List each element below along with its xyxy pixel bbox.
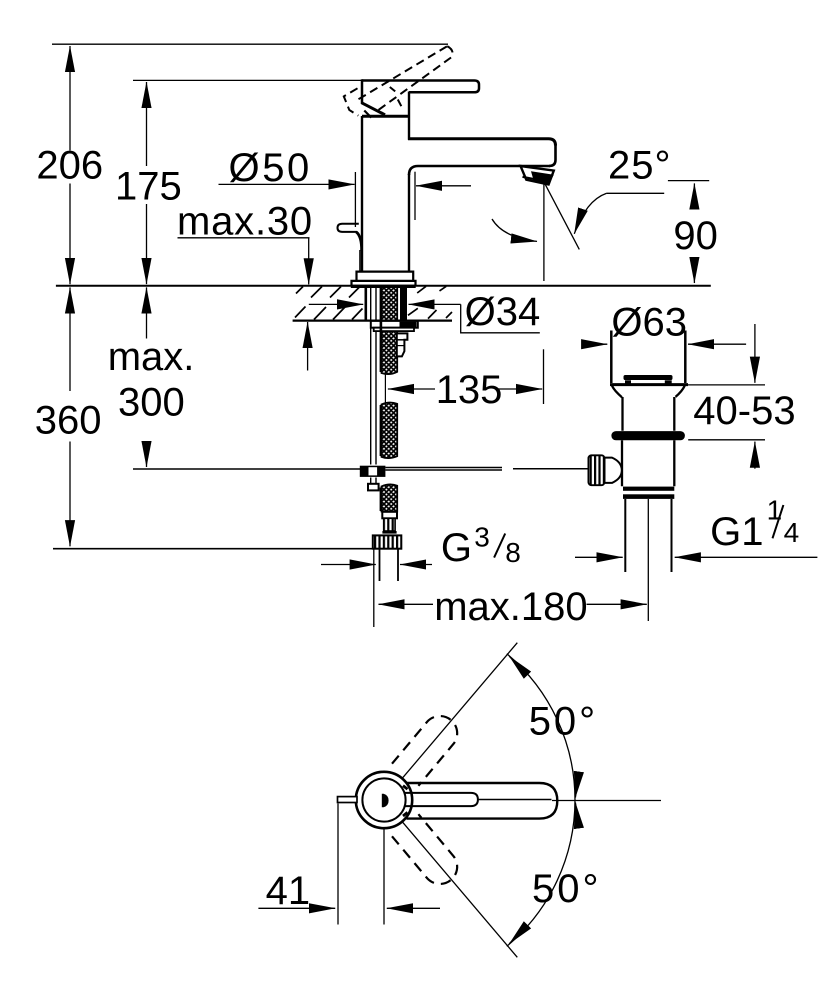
extension line top (lever raised tip level): [52, 43, 448, 45]
shank fitting steps: [397, 333, 408, 356]
countertop underside line: [293, 320, 452, 322]
spout top edge: [408, 139, 556, 146]
dimension max.300 line+arrows: [146, 287, 148, 338]
mounting nut tier1: [371, 321, 418, 328]
svg-text:135: 135: [436, 368, 503, 412]
svg-text:1: 1: [767, 495, 783, 526]
40-53 extension lines: [688, 384, 765, 386]
50° ray lower: [402, 821, 517, 957]
raised lever (dashed): [359, 46, 448, 99]
bottom reference line 360: [53, 548, 374, 550]
drain plug cap: [624, 375, 673, 380]
swing arc: [507, 654, 575, 947]
dimension 40-53 arrows: [754, 324, 756, 383]
svg-text:25°: 25°: [608, 144, 672, 188]
extension line at lever top level: [133, 79, 362, 81]
svg-text:Ø63: Ø63: [611, 301, 687, 345]
drain collar: [623, 487, 674, 491]
faucet body right edge lower: [408, 174, 410, 272]
svg-text:G: G: [441, 526, 472, 570]
svg-text:8: 8: [505, 537, 521, 568]
svg-text:360: 360: [35, 399, 102, 443]
hose end pipe: [380, 549, 399, 581]
dimension 90 arrows: [693, 183, 695, 209]
supply hose lower segment: [382, 484, 398, 511]
Ø34 leader: [461, 304, 540, 332]
svg-text:50°: 50°: [532, 867, 602, 911]
aerator outlet: [521, 166, 554, 185]
supply hose middle segment: [382, 403, 398, 459]
svg-text:G1: G1: [710, 510, 763, 554]
spray vertical reference: [543, 183, 545, 281]
lever inner slot: [404, 793, 478, 806]
handle head inner circle: [362, 778, 405, 821]
G3/8 nut: [373, 535, 402, 548]
pop-up rod knob: [338, 224, 359, 232]
pull rod foot: [368, 484, 379, 491]
faucet body right edge upper: [408, 92, 410, 140]
countertop reference line: [56, 285, 711, 287]
hose axis in break: [384, 372, 386, 403]
spout right end: [549, 144, 556, 166]
faucet body left edge: [361, 116, 363, 272]
dimension Ø50 arrows: [219, 183, 355, 185]
faucet lever (solid): [362, 81, 479, 93]
hose ferrule: [382, 512, 397, 519]
drain centerline: [647, 499, 649, 621]
dimension 135 arrows: [388, 388, 435, 390]
90 extension line: [668, 180, 709, 182]
hose compression fitting: [384, 518, 395, 531]
svg-text:max.30: max.30: [177, 200, 313, 244]
linkage rod middle: [385, 468, 502, 471]
mounting hole right edge: [400, 287, 407, 321]
svg-text:50°: 50°: [529, 700, 599, 744]
knob connector: [605, 458, 622, 483]
drain knurled knob: [588, 455, 604, 485]
svg-text:Ø50: Ø50: [229, 146, 312, 190]
spray sweep arrow: [492, 219, 537, 241]
svg-text:175: 175: [115, 165, 182, 209]
drain body: [622, 440, 674, 486]
dimension 206 line+arrows: [69, 46, 71, 151]
dimension max.180 arrows: [379, 603, 434, 605]
lever underside wedge: [362, 103, 385, 115]
set screw mark: [382, 794, 389, 807]
handle head outer circle: [356, 772, 412, 828]
handle lever top view: [407, 783, 558, 819]
cartridge top line: [362, 115, 409, 118]
base plate upper tier: [357, 272, 414, 281]
handle raised position (dashed, up 50°): [392, 716, 457, 786]
svg-text:3: 3: [474, 522, 490, 553]
base plate lower tier: [352, 281, 416, 286]
Ø50 extension lines: [354, 172, 356, 227]
swing centerline: [552, 800, 661, 802]
mounting hole left edge: [365, 287, 368, 321]
25° leader arrow: [574, 193, 606, 234]
svg-text:41: 41: [266, 869, 311, 913]
mounting nut tier2: [374, 328, 414, 331]
svg-text:Ø34: Ø34: [465, 290, 541, 334]
lever mid split line: [478, 799, 552, 801]
max.30 leader+arrows: [178, 237, 310, 239]
25° label underline: [607, 192, 665, 194]
drain seal ring: [611, 431, 685, 440]
swing arc arrowheads: [509, 656, 523, 670]
dimension Ø34 arrows: [309, 303, 363, 305]
dimension 41 arrows: [258, 907, 335, 909]
svg-text:90: 90: [673, 214, 718, 258]
linkage rod left / max300 extension: [133, 468, 360, 470]
svg-text:206: 206: [36, 143, 103, 187]
dimension 360 line+arrows: [69, 287, 71, 391]
svg-text:300: 300: [118, 380, 185, 424]
countertop hatching: [295, 286, 452, 319]
svg-text:40-53: 40-53: [693, 389, 795, 433]
lever-head fillet marks: [403, 786, 408, 816]
dimension G3/8 arrows: [321, 564, 376, 566]
supply hose upper segment: [382, 287, 398, 374]
rod clamp: [360, 466, 386, 477]
alignment tab: [338, 797, 358, 803]
drain cone: [612, 386, 622, 397]
drain neck: [623, 397, 675, 431]
handle lowered position (dashed, down 50°): [392, 814, 457, 884]
lever wedge diagonal: [364, 111, 371, 118]
linkage rod right: [513, 468, 588, 470]
dimension Ø63 arrows: [584, 343, 608, 345]
base plate bottom line: [351, 285, 416, 288]
spout bottom edge: [409, 166, 550, 175]
svg-text:max.180: max.180: [434, 585, 587, 629]
pull rod: [371, 287, 376, 465]
mounting nut dark side: [400, 322, 417, 328]
svg-text:4: 4: [784, 517, 800, 548]
41 extension lines: [337, 804, 339, 925]
drain flange sides: [611, 331, 685, 384]
max.180 extension line: [373, 550, 375, 628]
lever left edge: [361, 79, 364, 104]
drain tailpipe: [625, 499, 671, 572]
dimension 175 line+arrows: [146, 82, 148, 166]
135 extension line: [543, 349, 545, 404]
spray angled line: [545, 183, 580, 249]
50° ray upper: [402, 643, 517, 779]
dimension G1 1/4 arrows: [575, 556, 623, 558]
hose left edge shading: [380, 288, 383, 511]
drain flange bottom: [610, 383, 688, 386]
svg-text:max.: max.: [108, 335, 195, 379]
